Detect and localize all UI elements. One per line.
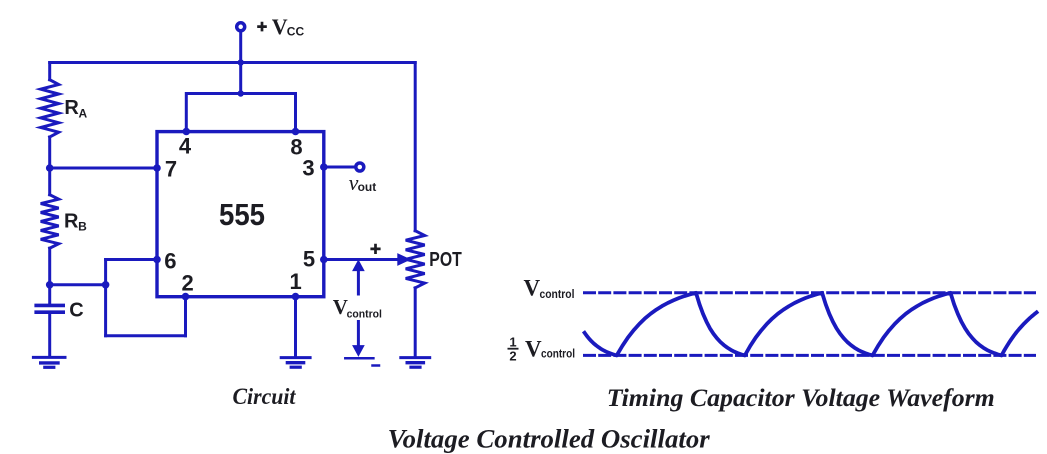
- svg-text:B: B: [78, 220, 87, 234]
- svg-text:3: 3: [302, 156, 314, 181]
- svg-text:R: R: [64, 211, 79, 233]
- svg-text:2: 2: [181, 271, 193, 296]
- svg-text:555: 555: [219, 197, 265, 232]
- svg-text:Timing Capacitor Voltage Wavef: Timing Capacitor Voltage Waveform: [607, 383, 995, 412]
- svg-text:A: A: [79, 106, 88, 120]
- svg-text:C: C: [69, 299, 83, 321]
- svg-text:Circuit: Circuit: [233, 384, 297, 409]
- svg-text:6: 6: [164, 249, 176, 274]
- svg-text:2: 2: [509, 348, 516, 363]
- svg-text:4: 4: [179, 134, 192, 159]
- svg-text:Voltage Controlled Oscillator: Voltage Controlled Oscillator: [388, 424, 711, 453]
- svg-text:control: control: [347, 309, 382, 321]
- svg-text:POT: POT: [429, 249, 462, 271]
- svg-text:1: 1: [289, 269, 301, 294]
- svg-text:7: 7: [165, 157, 177, 182]
- svg-text:out: out: [358, 180, 377, 194]
- svg-text:CC: CC: [287, 25, 305, 39]
- svg-text:8: 8: [290, 135, 302, 160]
- svg-text:V: V: [525, 337, 542, 362]
- svg-text:V: V: [524, 275, 541, 300]
- svg-text:control: control: [541, 349, 575, 361]
- svg-text:V: V: [272, 14, 288, 39]
- svg-text:control: control: [540, 289, 575, 301]
- svg-text:5: 5: [303, 247, 315, 272]
- svg-text:R: R: [64, 97, 79, 119]
- svg-text:1: 1: [509, 335, 516, 350]
